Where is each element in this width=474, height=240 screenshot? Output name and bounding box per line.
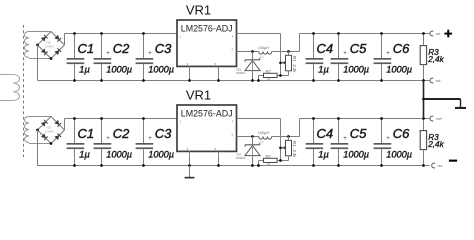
regulator VR1 A (LM2576-ADJ): [177, 20, 237, 66]
svg-text:1000µ: 1000µ: [386, 64, 412, 74]
resistor R2 A: [257, 68, 288, 81]
svg-text:1µ: 1µ: [79, 64, 90, 75]
svg-text:R1: R1: [292, 56, 297, 62]
bridge rectifier VD2 B: [36, 117, 64, 145]
label - (big): [449, 160, 457, 162]
resistor R2 B: [257, 153, 288, 166]
svg-text:C2: C2: [113, 126, 130, 141]
svg-text:100µH: 100µH: [258, 46, 270, 50]
label VR1 B: [186, 88, 211, 103]
bridge rectifier VD2 A: [36, 32, 64, 60]
ground mid: [455, 99, 466, 109]
label VD1 1N5822: [236, 152, 246, 160]
capacitor C6 B: [374, 117, 412, 167]
wire to mid ground: [424, 98, 461, 100]
svg-text:out+: out+: [436, 117, 443, 121]
svg-text:out: out: [438, 164, 443, 168]
svg-text:LM2576-ADJ: LM2576-ADJ: [181, 24, 233, 34]
capacitor C6 A: [374, 32, 412, 82]
wire: [64, 119, 66, 131]
capacitor C1 A: [67, 32, 95, 82]
wire input rail: [65, 33, 178, 35]
transformer T1 core: [23, 25, 25, 157]
svg-text:+: +: [386, 136, 390, 142]
resistor R1 B: [286, 137, 297, 161]
wire input rail: [65, 118, 178, 120]
svg-text:C6: C6: [393, 126, 410, 141]
wire pin3: [188, 66, 191, 81]
svg-text:C1: C1: [78, 41, 95, 56]
label VR1 A: [186, 3, 211, 18]
svg-text:1µ: 1µ: [318, 149, 329, 160]
capacitor C5 A: [331, 32, 369, 82]
svg-text:L1: L1: [261, 140, 265, 144]
inductor L1 A: [237, 50, 300, 54]
resistor R3 B: [420, 117, 444, 167]
resistor R3 A: [420, 32, 444, 82]
svg-text:VD2: VD2: [46, 126, 52, 130]
svg-text:VR1: VR1: [186, 88, 211, 103]
svg-text:1000µ: 1000µ: [106, 149, 132, 159]
svg-text:C3: C3: [155, 126, 172, 141]
svg-text:3.3k: 3.3k: [292, 149, 297, 158]
svg-text:C5: C5: [350, 126, 367, 141]
svg-text:1000µ: 1000µ: [148, 64, 174, 74]
wire output rail: [300, 33, 430, 35]
node out- top: [430, 78, 442, 83]
svg-text:1N4007: 1N4007: [45, 130, 55, 134]
svg-text:+: +: [106, 136, 110, 142]
svg-text:1N5822: 1N5822: [236, 71, 246, 75]
wire FB net: [237, 119, 287, 161]
capacitor C2 A: [94, 32, 132, 82]
svg-text:+: +: [106, 51, 110, 57]
svg-text:L1: L1: [261, 55, 265, 59]
resistor R1 A: [286, 52, 297, 76]
wire output rail: [300, 118, 430, 120]
svg-text:VR1: VR1: [186, 3, 211, 18]
wire ground rail: [38, 165, 430, 167]
svg-text:+: +: [343, 51, 347, 57]
label 100µH: [258, 131, 270, 144]
wire: [299, 119, 301, 137]
wire: [299, 34, 301, 52]
svg-text:1k: 1k: [267, 77, 271, 81]
svg-text:+: +: [343, 136, 347, 142]
capacitor C3 B: [136, 117, 174, 167]
wire pin5: [217, 66, 220, 81]
svg-text:C1: C1: [78, 126, 95, 141]
svg-text:1µ: 1µ: [318, 64, 329, 75]
svg-text:2,4k: 2,4k: [427, 140, 444, 149]
capacitor C4 B: [306, 117, 334, 167]
wire: [64, 34, 66, 46]
svg-text:1N5822: 1N5822: [236, 156, 246, 160]
wire series link: [423, 81, 425, 119]
transformer T1 secondary winding A: [24, 32, 51, 59]
svg-text:C4: C4: [317, 126, 334, 141]
capacitor C5 B: [331, 117, 369, 167]
svg-text:C3: C3: [155, 41, 172, 56]
svg-text:3.3k: 3.3k: [292, 64, 297, 73]
capacitor C2 B: [94, 117, 132, 167]
svg-text:1000µ: 1000µ: [343, 149, 369, 159]
svg-text:+: +: [386, 51, 390, 57]
svg-text:R2: R2: [266, 153, 272, 158]
svg-text:1000µ: 1000µ: [148, 149, 174, 159]
diode VD1 B (1N5822): [245, 137, 260, 167]
wire FB net: [237, 34, 287, 76]
node mid junction: [422, 98, 425, 101]
label + (big): [444, 30, 452, 38]
svg-text:1µ: 1µ: [79, 149, 90, 160]
svg-text:2,4k: 2,4k: [427, 55, 444, 64]
svg-text:100µH: 100µH: [258, 131, 270, 135]
capacitor C3 A: [136, 32, 174, 82]
svg-text:+: +: [148, 136, 152, 142]
inductor L1 B: [237, 135, 300, 139]
capacitor C4 A: [306, 32, 334, 82]
node out+ bottom: [430, 116, 443, 121]
svg-text:C2: C2: [113, 41, 130, 56]
svg-text:R2: R2: [266, 68, 272, 73]
label VD1 1N5822: [236, 67, 246, 75]
transformer T1 primary winding: [0, 75, 20, 101]
svg-text:C5: C5: [350, 41, 367, 56]
svg-text:R1: R1: [292, 141, 297, 147]
svg-text:out-: out-: [436, 79, 442, 83]
wire: [37, 45, 39, 81]
svg-text:1N4007: 1N4007: [45, 45, 55, 49]
svg-text:1000µ: 1000µ: [386, 149, 412, 159]
ground: [185, 166, 195, 179]
node out- bottom: [432, 163, 443, 168]
svg-text:1000µ: 1000µ: [106, 64, 132, 74]
wire ground rail: [38, 80, 430, 82]
transformer T1 secondary winding B: [24, 117, 51, 144]
svg-text:C4: C4: [317, 41, 334, 56]
svg-text:C6: C6: [393, 41, 410, 56]
svg-text:1000µ: 1000µ: [343, 64, 369, 74]
wire pin5: [217, 151, 220, 166]
diode VD1 A (1N5822): [245, 52, 260, 82]
svg-text:1k: 1k: [267, 162, 271, 166]
svg-text:+: +: [148, 51, 152, 57]
capacitor C1 B: [67, 117, 95, 167]
wire: [37, 130, 39, 166]
svg-text:LM2576-ADJ: LM2576-ADJ: [181, 109, 233, 119]
label 100µH: [258, 46, 270, 59]
node out+ top: [430, 31, 440, 36]
regulator VR1 B (LM2576-ADJ): [177, 105, 237, 151]
svg-text:out: out: [436, 32, 441, 36]
wire pin3: [188, 151, 191, 166]
svg-text:VD2: VD2: [46, 41, 52, 45]
